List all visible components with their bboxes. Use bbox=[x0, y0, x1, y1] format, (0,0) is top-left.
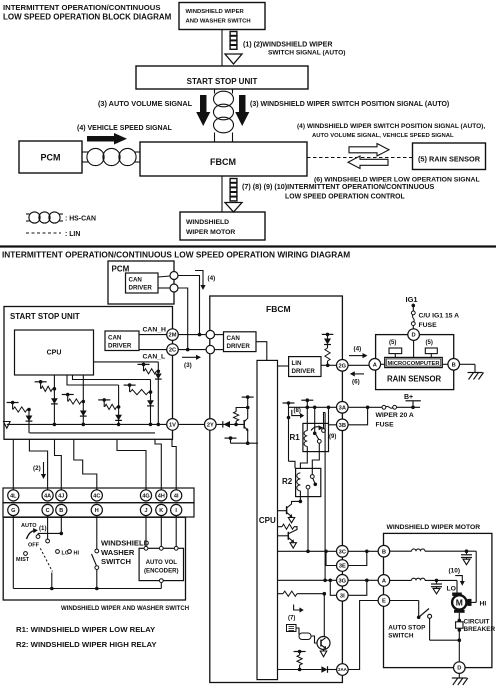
svg-text:R2: WINDSHIELD WIPER HIGH RELA: R2: WINDSHIELD WIPER HIGH RELAY bbox=[16, 640, 157, 649]
svg-text:MIST: MIST bbox=[16, 557, 30, 563]
svg-text:WINDSHIELD WIPER: WINDSHIELD WIPER bbox=[186, 9, 245, 15]
svg-text:FUSE: FUSE bbox=[376, 422, 395, 429]
svg-text:4C: 4C bbox=[93, 493, 100, 499]
svg-text:: HS-CAN: : HS-CAN bbox=[65, 216, 96, 223]
svg-text:B: B bbox=[382, 549, 386, 555]
svg-text:2M: 2M bbox=[169, 333, 177, 339]
svg-text:IG1: IG1 bbox=[406, 295, 418, 304]
svg-text:2G: 2G bbox=[339, 363, 347, 369]
svg-text:R1: R1 bbox=[290, 433, 301, 442]
svg-text:J: J bbox=[144, 508, 147, 514]
svg-text:(3) WINDSHIELD WIPER SWITCH P: (3) WINDSHIELD WIPER SWITCH POSITION SIG… bbox=[250, 101, 449, 108]
svg-text:AUTO: AUTO bbox=[21, 523, 37, 529]
svg-text:(2): (2) bbox=[33, 465, 41, 472]
svg-text:(ENCODER): (ENCODER) bbox=[144, 568, 179, 575]
svg-text:START STOP UNIT: START STOP UNIT bbox=[10, 312, 80, 321]
svg-text:4J: 4J bbox=[58, 493, 64, 499]
svg-text:3E: 3E bbox=[339, 564, 346, 570]
svg-text:CAN: CAN bbox=[108, 335, 122, 342]
svg-text:B+: B+ bbox=[404, 394, 413, 401]
svg-text:PCM: PCM bbox=[41, 153, 61, 163]
svg-text:(4): (4) bbox=[208, 275, 216, 282]
svg-text:(3): (3) bbox=[184, 362, 192, 369]
svg-text:WASHER: WASHER bbox=[101, 548, 135, 557]
svg-text:E: E bbox=[382, 599, 386, 605]
svg-text:LIN: LIN bbox=[292, 360, 302, 367]
svg-text:START STOP UNIT: START STOP UNIT bbox=[187, 77, 258, 86]
svg-text:LO: LO bbox=[447, 586, 456, 593]
svg-text:WIPER 20 A: WIPER 20 A bbox=[376, 412, 414, 419]
svg-text:INTERMITTENT OPERATION/CONTINU: INTERMITTENT OPERATION/CONTINUOUS LOW SP… bbox=[2, 250, 350, 260]
svg-text:LOW SPEED OPERATION CONTROL: LOW SPEED OPERATION CONTROL bbox=[285, 194, 405, 201]
svg-text:FUSE: FUSE bbox=[419, 322, 438, 329]
svg-text:SWITCH SIGNAL (AUTO): SWITCH SIGNAL (AUTO) bbox=[268, 50, 345, 57]
svg-text:CPU: CPU bbox=[47, 350, 62, 357]
svg-text:AUTO STOP: AUTO STOP bbox=[388, 625, 426, 632]
svg-text:H: H bbox=[95, 508, 99, 514]
svg-text:HI: HI bbox=[480, 601, 487, 608]
svg-text:(5) RAIN SENSOR: (5) RAIN SENSOR bbox=[418, 155, 481, 164]
svg-text:3G: 3G bbox=[339, 578, 347, 584]
svg-text:2AA: 2AA bbox=[338, 667, 348, 672]
svg-text:C/U IG1 15 A: C/U IG1 15 A bbox=[419, 313, 460, 320]
svg-text:CAN_L: CAN_L bbox=[143, 354, 166, 361]
svg-text:A: A bbox=[373, 362, 377, 368]
svg-text:2C: 2C bbox=[169, 348, 176, 354]
svg-text:OFF: OFF bbox=[28, 543, 40, 549]
svg-text:3B: 3B bbox=[339, 423, 346, 429]
svg-text:(6): (6) bbox=[352, 379, 360, 386]
svg-text:(5): (5) bbox=[389, 340, 396, 346]
svg-text:DRIVER: DRIVER bbox=[292, 368, 316, 375]
svg-text:(10): (10) bbox=[449, 568, 461, 575]
svg-text:MICROCOMPUTER: MICROCOMPUTER bbox=[387, 361, 440, 367]
svg-text:CPU: CPU bbox=[259, 516, 276, 525]
svg-text:D: D bbox=[457, 666, 461, 672]
svg-text:WINDSHIELD WIPER MOTOR: WINDSHIELD WIPER MOTOR bbox=[387, 524, 481, 531]
svg-text:FBCM: FBCM bbox=[210, 157, 236, 167]
svg-text:4L: 4L bbox=[10, 493, 17, 499]
svg-text:(3) AUTO VOLUME SIGNAL: (3) AUTO VOLUME SIGNAL bbox=[98, 99, 193, 108]
svg-text:2Y: 2Y bbox=[207, 422, 214, 428]
svg-text:C: C bbox=[46, 508, 50, 514]
svg-text:(9): (9) bbox=[329, 434, 336, 440]
svg-text:M: M bbox=[456, 598, 463, 608]
svg-text:3A: 3A bbox=[339, 405, 346, 411]
svg-text:AUTO VOLUME SIGNAL, VEHICLE SP: AUTO VOLUME SIGNAL, VEHICLE SPEED SIGNAL bbox=[312, 133, 454, 139]
svg-text:WIPER MOTOR: WIPER MOTOR bbox=[186, 229, 235, 236]
svg-text:PCM: PCM bbox=[112, 265, 130, 274]
svg-text:4I: 4I bbox=[174, 493, 179, 499]
svg-text:CAN: CAN bbox=[129, 277, 143, 284]
svg-text:DRIVER: DRIVER bbox=[108, 343, 132, 350]
svg-text:4G: 4G bbox=[142, 493, 149, 499]
svg-text:B: B bbox=[452, 362, 456, 368]
svg-text:HI: HI bbox=[74, 551, 80, 557]
svg-text:R2: R2 bbox=[282, 477, 293, 486]
svg-text:(4) VEHICLE SPEED SIGNAL: (4) VEHICLE SPEED SIGNAL bbox=[77, 125, 173, 132]
svg-text:G: G bbox=[11, 508, 15, 514]
svg-text:BREAKER: BREAKER bbox=[464, 626, 496, 633]
svg-text:(7): (7) bbox=[288, 616, 295, 622]
svg-text:(5): (5) bbox=[426, 340, 433, 346]
svg-text:R1: WINDSHIELD WIPER LOW RELAY: R1: WINDSHIELD WIPER LOW RELAY bbox=[16, 625, 156, 634]
svg-text:B: B bbox=[59, 508, 63, 514]
svg-text:(4): (4) bbox=[354, 346, 362, 353]
svg-text:: LIN: : LIN bbox=[65, 231, 80, 238]
svg-text:FBCM: FBCM bbox=[266, 304, 291, 314]
svg-text:SWITCH: SWITCH bbox=[388, 633, 414, 640]
svg-text:AND WASHER SWITCH: AND WASHER SWITCH bbox=[186, 19, 251, 25]
svg-text:RAIN SENSOR: RAIN SENSOR bbox=[387, 375, 442, 384]
svg-text:CAN: CAN bbox=[227, 335, 241, 342]
svg-text:(1) (2)WINDSHIELD WIPER: (1) (2)WINDSHIELD WIPER bbox=[243, 41, 332, 49]
svg-text:SWITCH: SWITCH bbox=[101, 557, 131, 566]
svg-text:CAN_H: CAN_H bbox=[143, 327, 167, 334]
svg-text:AUTO VOL: AUTO VOL bbox=[146, 559, 178, 566]
svg-text:D: D bbox=[412, 333, 416, 339]
svg-text:INTERMITTENT OPERATION/CONTINU: INTERMITTENT OPERATION/CONTINUOUS bbox=[3, 3, 160, 12]
svg-text:3I: 3I bbox=[340, 593, 345, 599]
svg-text:K: K bbox=[159, 508, 163, 514]
svg-text:DRIVER: DRIVER bbox=[227, 343, 251, 350]
svg-text:1V: 1V bbox=[169, 422, 176, 428]
svg-text:(8): (8) bbox=[294, 408, 301, 414]
svg-text:CIRCUIT: CIRCUIT bbox=[464, 619, 490, 626]
svg-text:4H: 4H bbox=[158, 493, 165, 499]
svg-text:DRIVER: DRIVER bbox=[129, 285, 153, 292]
svg-text:WINDSHIELD: WINDSHIELD bbox=[186, 219, 229, 226]
svg-text:3C: 3C bbox=[339, 549, 346, 555]
svg-text:WINDSHIELD: WINDSHIELD bbox=[101, 539, 150, 548]
svg-text:(7) (8) (9) (10)INTERMITTENT O: (7) (8) (9) (10)INTERMITTENT OPERATION/C… bbox=[242, 182, 435, 191]
svg-text:LOW SPEED OPERATION BLOCK DIAG: LOW SPEED OPERATION BLOCK DIAGRAM bbox=[3, 13, 172, 22]
svg-text:4A: 4A bbox=[44, 493, 51, 499]
svg-text:(1): (1) bbox=[39, 525, 47, 532]
svg-text:(4) WINDSHIELD WIPER SWITCH P: (4) WINDSHIELD WIPER SWITCH POSITION SIG… bbox=[297, 123, 485, 130]
svg-text:WINDSHIELD WIPER AND WASHER SW: WINDSHIELD WIPER AND WASHER SWITCH bbox=[61, 606, 189, 612]
svg-text:A: A bbox=[382, 578, 386, 584]
